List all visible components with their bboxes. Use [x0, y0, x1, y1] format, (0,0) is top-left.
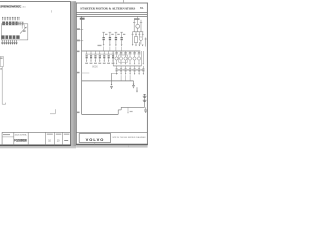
svg-text:94.: 94.: [140, 6, 144, 10]
svg-text:WIR 94 700/900 SERIES DIAGRAM: WIR 94 700/900 SERIES DIAGRAM: [112, 136, 145, 139]
svg-text:4D1-EL SCHEMA: 4D1-EL SCHEMA: [14, 133, 27, 136]
svg-text:STARTER MOTOR & ALTERNATORS: STARTER MOTOR & ALTERNATORS: [80, 6, 135, 10]
svg-text:VOLVO: VOLVO: [86, 137, 104, 142]
svg-text:8000: 8000: [92, 67, 98, 69]
svg-text:FS2989898: FS2989898: [14, 139, 27, 143]
svg-text:STARTER/ALTERNATOR CIRC: STARTER/ALTERNATOR CIRC: [0, 5, 22, 8]
